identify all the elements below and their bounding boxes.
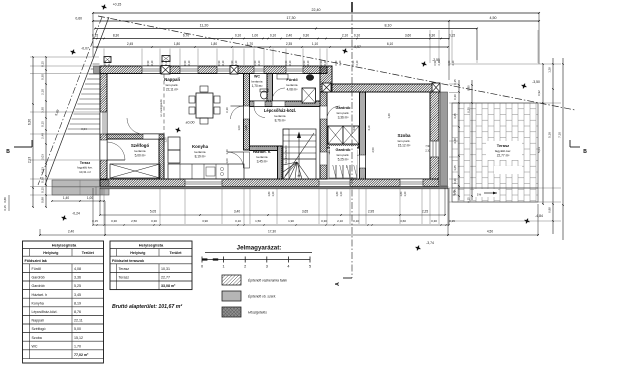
right wall window xyxy=(430,141,439,157)
szoba door xyxy=(360,155,366,168)
svg-text:Terület: Terület xyxy=(82,251,95,255)
right dim line 5,18 xyxy=(552,58,554,234)
pillar boxes in top wall xyxy=(161,66,170,75)
table 2 helyiseglista teraszok xyxy=(110,241,192,290)
section mark B left xyxy=(14,146,32,148)
svg-text:1,90: 1,90 xyxy=(288,219,294,223)
svg-text:1,28: 1,28 xyxy=(548,67,552,73)
furdo door opening xyxy=(272,101,285,107)
svg-text:4,08 m²: 4,08 m² xyxy=(287,87,298,91)
svg-text:1%: 1% xyxy=(477,193,482,197)
entry walk slab xyxy=(52,180,109,195)
svg-text:-0,97: -0,97 xyxy=(353,45,361,49)
svg-text:2,10: 2,10 xyxy=(452,60,455,65)
svg-text:1,00: 1,00 xyxy=(87,196,93,200)
svg-text:3,60: 3,60 xyxy=(405,33,411,37)
extension lines bottom xyxy=(103,189,105,224)
wc door opening xyxy=(254,101,265,107)
svg-text:Helyiséglista: Helyiséglista xyxy=(52,243,77,248)
svg-text:2,10: 2,10 xyxy=(222,60,225,65)
svg-text:Gardrób: Gardrób xyxy=(336,148,352,152)
svg-text:5,05: 5,05 xyxy=(150,210,156,214)
level marker -3,74 xyxy=(414,244,422,252)
svg-text:kerámia: kerámia xyxy=(274,114,285,118)
hob xyxy=(220,167,223,170)
top wall windows xyxy=(142,66,160,74)
svg-text:10,31 m²: 10,31 m² xyxy=(79,170,91,174)
svg-text:1,80: 1,80 xyxy=(336,191,339,196)
dimension row room chain top xyxy=(93,46,448,48)
entry door leaf+arc xyxy=(107,159,125,161)
szelfogo cabinet xyxy=(110,164,160,178)
svg-text:0,90: 0,90 xyxy=(434,60,437,65)
svg-text:Földszint lak: Földszint lak xyxy=(25,259,48,263)
left dim line outer xyxy=(32,57,34,207)
svg-text:Terasz: Terasz xyxy=(119,267,130,271)
left site boundary solid xyxy=(45,17,109,185)
svg-text:6,30: 6,30 xyxy=(28,119,32,125)
svg-text:1,80: 1,80 xyxy=(211,42,217,46)
stairs cut line xyxy=(285,133,314,176)
entry stairs treads xyxy=(93,63,100,65)
kitchen counter xyxy=(168,164,244,179)
chairs xyxy=(189,96,195,103)
svg-text:lam.park.: lam.park. xyxy=(398,139,411,143)
svg-text:WC: WC xyxy=(254,75,260,79)
room terasz halo xyxy=(486,141,522,160)
svg-text:0,10: 0,10 xyxy=(235,219,241,223)
walk steps xyxy=(95,187,97,195)
right wall concrete strip xyxy=(441,92,448,186)
svg-text:2,10: 2,10 xyxy=(438,60,441,65)
svg-text:2: 2 xyxy=(244,265,246,269)
svg-text:1,65: 1,65 xyxy=(453,165,457,171)
svg-text:1,80: 1,80 xyxy=(174,42,180,46)
svg-text:Bruttó alapterület: 101,67 m²: Bruttó alapterület: 101,67 m² xyxy=(112,304,182,310)
svg-text:0,88: 0,88 xyxy=(548,207,552,213)
svg-text:8,76 m²: 8,76 m² xyxy=(275,118,286,122)
svg-text:2,25: 2,25 xyxy=(422,210,428,214)
svg-text:fagyálló ker.: fagyálló ker. xyxy=(77,166,93,170)
svg-text:0,30: 0,30 xyxy=(431,219,437,223)
svg-text:8,30: 8,30 xyxy=(113,33,119,37)
dim line 2 right of wall xyxy=(471,80,473,200)
svg-text:2,10: 2,10 xyxy=(258,60,261,65)
svg-text:Helyiség: Helyiség xyxy=(43,251,58,255)
svg-text:3,65: 3,65 xyxy=(302,210,308,214)
svg-text:1,70 m²: 1,70 m² xyxy=(252,84,263,88)
svg-text:2,10: 2,10 xyxy=(356,60,359,65)
svg-text:7,90: 7,90 xyxy=(425,145,430,148)
section line A vertical xyxy=(351,2,353,278)
svg-text:2,10: 2,10 xyxy=(425,150,430,153)
level marker -4,84 xyxy=(523,217,531,225)
svg-text:0: 0 xyxy=(201,265,203,269)
svg-text:2,10: 2,10 xyxy=(188,60,191,65)
svg-text:8,19: 8,19 xyxy=(74,301,81,305)
svg-text:Földszint teraszok: Földszint teraszok xyxy=(112,259,145,263)
svg-text:77,02 m²: 77,02 m² xyxy=(74,353,89,357)
svg-text:2,45: 2,45 xyxy=(127,42,133,46)
svg-text:Gardrób: Gardrób xyxy=(32,276,45,280)
svg-text:5,25 m²: 5,25 m² xyxy=(338,157,349,161)
svg-text:Terasz: Terasz xyxy=(497,143,509,148)
svg-text:1,40: 1,40 xyxy=(63,196,69,200)
svg-text:0,10: 0,10 xyxy=(235,33,241,37)
dimension row 22,40 xyxy=(93,12,539,14)
svg-text:2,10: 2,10 xyxy=(151,60,154,65)
gardrob2 wardrobes xyxy=(329,150,336,178)
stairs walk line arrow xyxy=(298,135,300,176)
door opening lepcsohaz-nappali xyxy=(244,106,250,119)
svg-text:Nappali: Nappali xyxy=(32,319,44,323)
svg-text:2,10: 2,10 xyxy=(342,33,348,37)
svg-text:17,30: 17,30 xyxy=(268,230,276,234)
shower xyxy=(302,88,316,103)
svg-text:2,40: 2,40 xyxy=(68,230,74,234)
svg-text:A: A xyxy=(335,282,341,286)
svg-text:22,11 m²: 22,11 m² xyxy=(166,87,178,91)
svg-text:0,10: 0,10 xyxy=(354,33,360,37)
svg-text:Szoba: Szoba xyxy=(398,133,411,138)
svg-text:±0,00: ±0,00 xyxy=(186,121,195,125)
svg-text:1,80: 1,80 xyxy=(268,191,271,196)
svg-text:5,00 m²: 5,00 m² xyxy=(135,153,146,157)
svg-text:0,10: 0,10 xyxy=(368,125,371,130)
svg-text:11,20: 11,20 xyxy=(200,24,209,28)
svg-text:kerámia: kerámia xyxy=(286,83,297,87)
svg-text:1,80: 1,80 xyxy=(400,191,403,196)
bottom connectors xyxy=(39,229,41,235)
svg-text:0,88: 0,88 xyxy=(41,197,45,203)
legend gray sample concrete xyxy=(222,291,241,301)
svg-text:Helyiség: Helyiség xyxy=(130,251,145,255)
bottom row room chain xyxy=(100,214,445,216)
svg-text:Terület: Terület xyxy=(169,251,182,255)
svg-text:kerámia: kerámia xyxy=(256,155,267,159)
left wall window xyxy=(100,112,107,134)
gardrob2 door in x=320 wall xyxy=(320,152,327,165)
level marker -0,97 xyxy=(341,47,349,55)
svg-text:6,10: 6,10 xyxy=(225,107,229,113)
right dim line 7,10 xyxy=(562,58,564,240)
svg-text:fagyálló ker.: fagyálló ker. xyxy=(495,149,512,153)
level marker -3,50 xyxy=(520,82,528,90)
legend scale bar xyxy=(202,259,310,261)
svg-text:kerámia: kerámia xyxy=(134,149,145,153)
svg-text:Szélfogó: Szélfogó xyxy=(32,327,46,331)
svg-text:kerámia: kerámia xyxy=(194,150,205,154)
svg-text:lam.park.: lam.park. xyxy=(337,153,350,157)
svg-text:B: B xyxy=(6,149,10,155)
svg-text:-0,24: -0,24 xyxy=(72,212,80,216)
svg-text:kerámia: kerámia xyxy=(251,79,262,83)
svg-text:3,45 m²: 3,45 m² xyxy=(257,159,268,163)
terrace slope arrow xyxy=(474,189,498,197)
svg-text:1,20: 1,20 xyxy=(272,191,275,196)
svg-text:Szélfogó: Szélfogó xyxy=(131,143,150,148)
svg-text:Gardrób: Gardrób xyxy=(336,106,352,110)
bottom wall concrete strip xyxy=(100,187,448,189)
legend insulation sample xyxy=(222,307,241,317)
svg-text:0,10: 0,10 xyxy=(270,33,276,37)
svg-text:Háztart. h.: Háztart. h. xyxy=(253,150,271,154)
svg-text:Építendő vázkerámia falak: Építendő vázkerámia falak xyxy=(248,278,287,283)
dim line between wall and terrace xyxy=(458,80,460,200)
svg-text:WC: WC xyxy=(32,344,38,348)
svg-text:Konyha: Konyha xyxy=(192,144,209,149)
svg-text:0,30: 0,30 xyxy=(321,219,327,223)
svg-text:7,10: 7,10 xyxy=(558,132,562,138)
svg-text:1,10: 1,10 xyxy=(312,42,318,46)
svg-text:2,03: 2,03 xyxy=(41,154,45,160)
svg-text:0,90: 0,90 xyxy=(335,60,338,65)
svg-text:0,15: 0,15 xyxy=(453,189,457,195)
svg-text:-0,07: -0,07 xyxy=(81,47,89,51)
svg-text:0,30: 0,30 xyxy=(151,219,157,223)
svg-text:1,49: 1,49 xyxy=(387,113,391,119)
svg-text:1,93: 1,93 xyxy=(41,167,45,173)
svg-text:Lépcsőház-közl.: Lépcsőház-közl. xyxy=(264,108,296,113)
svg-text:FEL 18x166/300: FEL 18x166/300 xyxy=(284,145,288,164)
svg-text:0,90: 0,90 xyxy=(231,60,234,65)
svg-text:0,90: 0,90 xyxy=(254,60,257,65)
svg-text:Jelmagyarázat:: Jelmagyarázat: xyxy=(237,245,282,252)
svg-text:Gardrób: Gardrób xyxy=(32,284,45,288)
svg-text:3,36 m²: 3,36 m² xyxy=(338,115,349,119)
svg-text:Terasz: Terasz xyxy=(119,276,130,280)
table 1 helyiseglista lak xyxy=(23,241,104,363)
svg-text:0,90: 0,90 xyxy=(285,60,288,65)
svg-text:10,31: 10,31 xyxy=(161,267,170,271)
svg-text:2,50: 2,50 xyxy=(371,147,375,153)
svg-text:2,40: 2,40 xyxy=(41,133,45,139)
level marker +0,15 xyxy=(100,3,108,11)
svg-text:0,90: 0,90 xyxy=(303,60,306,65)
dining table xyxy=(196,93,213,118)
kitchen tall units xyxy=(168,150,180,163)
dimension row 11,20 / 8,10 xyxy=(95,28,477,30)
svg-text:1,50: 1,50 xyxy=(255,219,261,223)
svg-text:2,95: 2,95 xyxy=(368,210,374,214)
left dim line inner xyxy=(45,57,47,207)
svg-text:4,08: 4,08 xyxy=(74,267,81,271)
svg-text:3: 3 xyxy=(266,265,268,269)
svg-text:8,76: 8,76 xyxy=(74,310,81,314)
svg-text:0,10: 0,10 xyxy=(353,219,359,223)
svg-text:5,25: 5,25 xyxy=(74,284,81,288)
door opening konyha-haztart xyxy=(244,152,250,168)
svg-text:2,10: 2,10 xyxy=(165,60,168,65)
svg-text:-4,84: -4,84 xyxy=(535,214,543,218)
level marker -2,55 xyxy=(420,60,428,68)
svg-text:1,70: 1,70 xyxy=(74,344,81,348)
svg-text:0,88: 0,88 xyxy=(3,197,7,203)
section mark B right xyxy=(570,146,580,148)
svg-text:0,30: 0,30 xyxy=(453,94,457,100)
svg-text:0,15: 0,15 xyxy=(41,121,45,127)
svg-text:5,00: 5,00 xyxy=(74,327,81,331)
svg-text:0,90: 0,90 xyxy=(161,60,164,65)
svg-text:4,50: 4,50 xyxy=(490,16,497,20)
sink xyxy=(206,167,215,176)
svg-text:1: 1 xyxy=(223,265,225,269)
svg-text:Fürdő: Fürdő xyxy=(286,77,298,82)
svg-text:sz. melegpadló: sz. melegpadló xyxy=(159,99,163,117)
svg-text:2,10: 2,10 xyxy=(337,219,343,223)
svg-text:8,10: 8,10 xyxy=(385,24,392,28)
svg-text:Építendő vb. szerk.: Építendő vb. szerk. xyxy=(248,294,276,299)
svg-text:5,03: 5,03 xyxy=(537,147,541,153)
svg-text:22,77: 22,77 xyxy=(161,276,170,280)
svg-text:0,90: 0,90 xyxy=(104,60,107,65)
svg-text:2,50: 2,50 xyxy=(131,219,137,223)
svg-text:2,10: 2,10 xyxy=(41,89,45,95)
stairs riser strip xyxy=(283,129,289,179)
svg-text:2,40: 2,40 xyxy=(286,33,292,37)
svg-text:15,12: 15,12 xyxy=(74,336,83,340)
svg-text:17,30: 17,30 xyxy=(287,16,296,20)
svg-text:-3,74: -3,74 xyxy=(426,241,434,245)
svg-text:Konyha: Konyha xyxy=(32,301,44,305)
svg-text:3,90: 3,90 xyxy=(202,219,208,223)
stairs winder fan xyxy=(283,162,297,165)
svg-text:3,40: 3,40 xyxy=(234,210,240,214)
extension lines top right xyxy=(429,30,431,63)
svg-text:1,20: 1,20 xyxy=(340,191,343,196)
bottom wall windows xyxy=(185,179,222,187)
dimension row 17,30 / 4,50 xyxy=(93,20,539,22)
svg-text:15,12 m²: 15,12 m² xyxy=(398,143,411,147)
svg-text:0,90: 0,90 xyxy=(184,60,187,65)
svg-text:1,00: 1,00 xyxy=(237,125,241,131)
svg-text:1,00: 1,00 xyxy=(225,158,229,164)
svg-text:lam.park.: lam.park. xyxy=(166,83,179,87)
svg-text:Terasz: Terasz xyxy=(80,161,91,165)
dimension row small chain top xyxy=(93,38,449,40)
svg-text:0,90: 0,90 xyxy=(448,60,451,65)
svg-text:2,38: 2,38 xyxy=(244,125,248,131)
svg-text:2,10: 2,10 xyxy=(108,60,111,65)
svg-text:0,60: 0,60 xyxy=(75,17,82,21)
furdo wc bowl dark xyxy=(306,74,314,80)
svg-text:0,15: 0,15 xyxy=(3,205,7,211)
level marker -0,07 xyxy=(69,48,77,56)
svg-text:6,10: 6,10 xyxy=(387,42,393,46)
gardrob closet boxes xyxy=(328,126,343,144)
svg-text:33,08 m²: 33,08 m² xyxy=(161,284,176,288)
extension lines top xyxy=(103,49,105,66)
svg-text:1,00: 1,00 xyxy=(252,33,258,37)
svg-text:0,30: 0,30 xyxy=(303,33,309,37)
svg-text:22,11: 22,11 xyxy=(74,319,83,323)
level marker +-0,00 nappali xyxy=(174,126,182,134)
svg-text:0,60: 0,60 xyxy=(353,125,356,130)
svg-text:0,90: 0,90 xyxy=(467,85,471,91)
right dim line 5,03 xyxy=(542,64,544,204)
svg-text:2,10: 2,10 xyxy=(289,60,292,65)
svg-text:0,90: 0,90 xyxy=(147,60,150,65)
site boundary diagonal dash-dot xyxy=(98,16,575,110)
svg-text:0,30: 0,30 xyxy=(111,219,117,223)
left site boundary dash-dot xyxy=(38,17,102,185)
svg-text:2,10: 2,10 xyxy=(235,60,238,65)
svg-text:0,38: 0,38 xyxy=(41,177,45,183)
walk dims xyxy=(52,200,104,202)
svg-text:1,20: 1,20 xyxy=(404,191,407,196)
svg-text:3,45: 3,45 xyxy=(74,293,81,297)
svg-text:0,30: 0,30 xyxy=(453,178,457,184)
svg-text:2,10: 2,10 xyxy=(324,60,327,65)
left wall entry door opening xyxy=(100,140,107,160)
furdo sink xyxy=(277,74,288,79)
svg-text:3,60: 3,60 xyxy=(400,219,406,223)
svg-text:5: 5 xyxy=(309,265,311,269)
heated floor dashed divider xyxy=(163,74,165,164)
svg-text:0,30: 0,30 xyxy=(467,107,471,113)
room gardrob2 halo xyxy=(330,146,357,165)
svg-text:0,30: 0,30 xyxy=(41,74,45,80)
svg-text:lam.park.: lam.park. xyxy=(337,111,350,115)
gardrob1 door in x=320 wall xyxy=(320,106,327,119)
svg-text:22,40: 22,40 xyxy=(312,8,321,12)
svg-text:5,18: 5,18 xyxy=(548,132,552,138)
svg-text:Nappali: Nappali xyxy=(164,77,180,82)
svg-text:4,28: 4,28 xyxy=(453,138,457,144)
svg-text:Fürdő: Fürdő xyxy=(32,267,41,271)
svg-text:0,90: 0,90 xyxy=(352,60,355,65)
bottom row small chain xyxy=(93,224,449,226)
svg-text:2,10: 2,10 xyxy=(339,60,342,65)
svg-text:4: 4 xyxy=(287,265,289,269)
wc toilet xyxy=(260,89,268,92)
svg-text:1,20: 1,20 xyxy=(225,149,229,155)
svg-text:2,35: 2,35 xyxy=(286,42,292,46)
corner block top-left xyxy=(94,66,101,74)
stairs xyxy=(283,129,316,179)
svg-text:Helyiséglista: Helyiséglista xyxy=(139,243,164,248)
extension lines left xyxy=(30,56,99,58)
svg-text:0,15: 0,15 xyxy=(41,187,45,193)
svg-text:Lépcsőház-közl.: Lépcsőház-közl. xyxy=(32,310,58,314)
small pillar markers above wall xyxy=(104,57,111,63)
svg-text:+0,15: +0,15 xyxy=(113,3,122,7)
svg-text:3,36: 3,36 xyxy=(74,276,81,280)
svg-text:-3,50: -3,50 xyxy=(532,80,540,84)
svg-text:Háztart. h: Háztart. h xyxy=(32,293,48,297)
svg-text:3,25: 3,25 xyxy=(453,113,457,119)
level marker -0,24 xyxy=(60,214,68,222)
svg-text:22,77 m²: 22,77 m² xyxy=(497,153,510,157)
svg-text:4,50: 4,50 xyxy=(487,230,493,234)
svg-text:0,92: 0,92 xyxy=(537,90,541,96)
extension lines right xyxy=(449,63,561,65)
svg-text:Hőszigetelés: Hőszigetelés xyxy=(248,311,267,315)
svg-text:1,20: 1,20 xyxy=(164,137,168,143)
bottom row totals xyxy=(40,234,538,236)
svg-text:8,19 m²: 8,19 m² xyxy=(195,154,206,158)
svg-text:2,10: 2,10 xyxy=(307,60,310,65)
svg-text:Szoba: Szoba xyxy=(32,336,42,340)
level marker -0,01 terrace xyxy=(501,167,509,175)
svg-text:0,90: 0,90 xyxy=(320,60,323,65)
svg-text:0,90: 0,90 xyxy=(218,60,221,65)
svg-text:B: B xyxy=(583,149,587,155)
